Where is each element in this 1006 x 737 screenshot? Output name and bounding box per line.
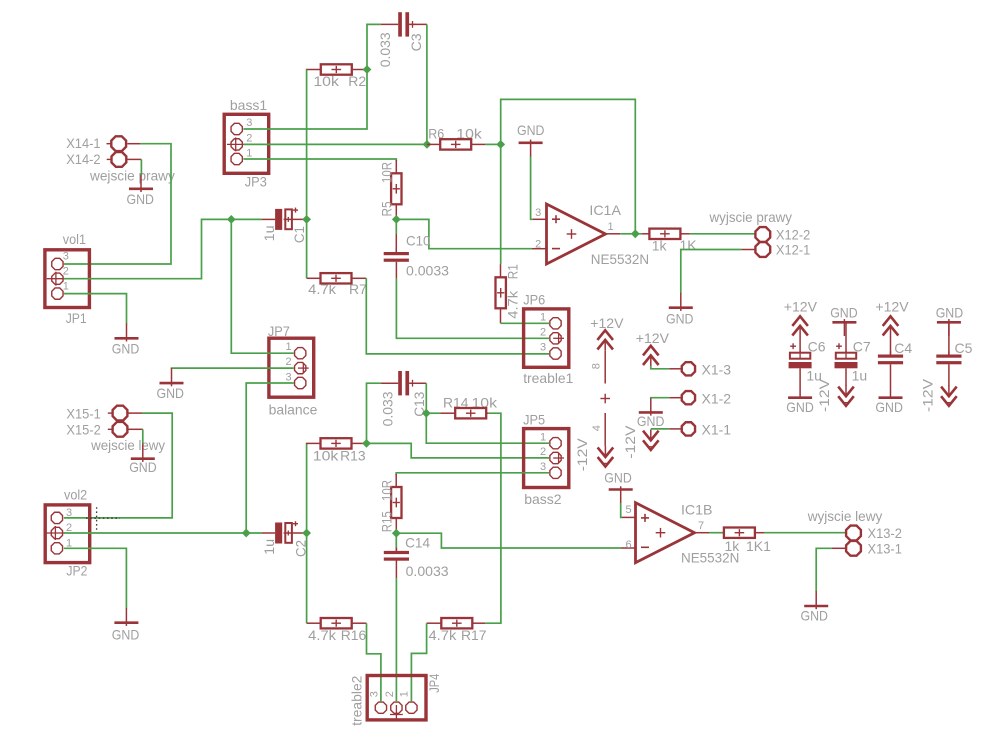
svg-text:bass2: bass2 [524, 491, 562, 507]
JP3 pin 3 circle [231, 123, 242, 134]
svg-text:2: 2 [63, 266, 69, 278]
ground GND (IC1A pin3) [519, 140, 543, 158]
svg-text:X13-1: X13-1 [868, 540, 903, 556]
junction R15/C14/opamp node [392, 529, 401, 538]
resistor R15 [391, 487, 401, 518]
wire R17 left to JP4 pin 1 [411, 623, 426, 701]
C2 left pin [262, 532, 275, 534]
R5 top pin [395, 160, 397, 173]
connector JP4 box [367, 676, 426, 720]
wire node to IC1A pin 2 [396, 219, 532, 248]
JP4 pin 2 origin cross [395, 705, 397, 722]
JP1 pin 2 circle [47, 272, 65, 286]
svg-text:1k: 1k [725, 538, 741, 554]
C4 bottom pin [890, 364, 892, 397]
svg-text:JP5: JP5 [523, 411, 545, 427]
svg-text:2: 2 [286, 356, 292, 368]
wire +12V to X1-3 [651, 366, 669, 369]
wire node down to C14 [395, 533, 397, 548]
svg-text:1u: 1u [261, 225, 277, 241]
-12V supply arrow (IC1P pin 4) [598, 446, 614, 466]
JP5 pin 1 circle [550, 438, 561, 449]
connector pad X15-1 [108, 406, 128, 421]
pin stub X15-2 [128, 428, 143, 430]
svg-text:IC1A: IC1A [589, 202, 621, 218]
R16 right pin [352, 622, 366, 624]
wire C2 node down to R16 [306, 533, 308, 623]
svg-text:1u: 1u [852, 367, 868, 383]
svg-text:8: 8 [591, 363, 603, 369]
capacitor C10 [384, 249, 409, 262]
wire X12-1 to GND [681, 250, 741, 294]
C5 bottom pin [948, 364, 950, 386]
wire GND to IC1B pin 5 [621, 503, 622, 517]
svg-text:R16: R16 [341, 627, 367, 643]
+12V supply arrow (IC1P pin 8) [597, 330, 613, 351]
connector pad X13-1 [846, 541, 861, 556]
svg-text:+12V: +12V [636, 330, 670, 346]
C5 top pin [948, 323, 950, 354]
wire node down to C10 [395, 219, 397, 234]
svg-text:R5: R5 [378, 201, 394, 216]
svg-text:1: 1 [540, 311, 546, 323]
ground GND (JP1) [115, 323, 139, 341]
svg-text:R1: R1 [505, 264, 521, 279]
connector pad X1-3 [682, 362, 695, 375]
C3 left pin [381, 23, 399, 25]
wire node to IC1B pin 6 [396, 533, 621, 548]
+12V supply arrow (X1-3) [643, 346, 659, 367]
1K right pin [680, 233, 690, 235]
R1 bottom pin [500, 308, 502, 323]
origin crosshair marker (JP2) [86, 507, 120, 530]
svg-text:R15: R15 [378, 511, 394, 532]
svg-text:C7: C7 [853, 339, 871, 355]
R16 left pin [307, 622, 321, 624]
-12V supply arrow (C7) [838, 385, 854, 405]
wire node down to R1 [500, 144, 502, 264]
svg-text:X1-1: X1-1 [702, 421, 732, 437]
X1-3 pin stub [669, 368, 682, 370]
svg-text:GND: GND [786, 399, 814, 415]
svg-text:GND: GND [637, 413, 665, 429]
svg-text:3: 3 [246, 117, 252, 129]
svg-text:+12V: +12V [784, 298, 818, 314]
ground GND (JP2) [114, 608, 138, 626]
svg-text:GND: GND [666, 311, 694, 327]
junction C2 plus node [302, 529, 311, 538]
wire X13-1 to GND [816, 548, 832, 591]
junction R5/C10/opamp node [392, 215, 401, 224]
svg-text:X13-2: X13-2 [868, 525, 903, 541]
wire C13 right down [425, 383, 427, 413]
C13 left pin [381, 382, 398, 384]
svg-text:4.7k: 4.7k [308, 627, 337, 643]
R2 right pin [352, 69, 364, 71]
R1 top pin [500, 264, 502, 277]
svg-text:X1-3: X1-3 [702, 362, 732, 378]
svg-text:2: 2 [540, 446, 546, 458]
C6 bottom pin [799, 368, 801, 397]
svg-text:+12V: +12V [875, 298, 909, 314]
wire JP2 pin 1 to GND [64, 548, 127, 608]
wire JP1 pin 1 to GND [64, 294, 127, 324]
svg-text:JP4: JP4 [426, 674, 442, 693]
X12-1 pin stub [741, 249, 755, 251]
svg-text:1: 1 [399, 691, 411, 697]
svg-text:GND: GND [801, 608, 829, 624]
wire 1K to X12-2 [690, 233, 755, 235]
svg-text:-12V: -12V [919, 378, 935, 412]
op-amp IC1A [547, 204, 606, 264]
resistor R6 [440, 139, 471, 149]
capacitor C13 [398, 371, 409, 395]
IC1P pin 8 line [604, 351, 606, 384]
svg-text:3: 3 [286, 371, 292, 383]
svg-text:vol1: vol1 [63, 231, 86, 247]
wire R7 to JP6 pin 3 [366, 278, 549, 354]
connector pad X14-1 [107, 136, 127, 151]
ground GND (C5) [937, 319, 961, 336]
junction R6 right / feedback node [496, 140, 505, 149]
svg-text:GND: GND [112, 626, 140, 642]
JP3 pin 1 circle [231, 153, 242, 164]
capacitor C5 [936, 351, 961, 364]
R17 left pin [427, 622, 442, 624]
wire R13 node to JP5 pin 2 [367, 443, 550, 458]
svg-text:GND: GND [129, 459, 157, 475]
wire JP7 pin 2 to GND [172, 367, 294, 370]
svg-text:3: 3 [535, 207, 541, 219]
1K1 right pin [755, 532, 764, 534]
1K left pin [642, 233, 650, 235]
IC1A pin 2 stub [532, 248, 547, 250]
pin stub X14-2 [127, 158, 141, 160]
svg-text:wyjscie lewy: wyjscie lewy [807, 508, 883, 524]
svg-text:R17: R17 [461, 627, 487, 643]
C13 right pin [409, 382, 426, 384]
svg-text:X12-2: X12-2 [776, 227, 811, 243]
resistor R7 [321, 273, 352, 283]
R6 left pin [427, 143, 440, 145]
C7 bottom pin [845, 368, 847, 386]
X13-1 pin stub [832, 547, 846, 549]
pin stub X14-1 [127, 143, 140, 145]
capacitor C7 (polarized) [835, 343, 858, 368]
svg-text:vol2: vol2 [64, 486, 87, 502]
X1-1 pin stub [669, 428, 682, 430]
svg-text:3: 3 [66, 507, 72, 519]
resistor 1K (right channel) [649, 229, 680, 239]
X1-2 pin stub [669, 397, 682, 399]
svg-text:GND: GND [936, 305, 964, 321]
C10 bottom pin [395, 262, 397, 279]
svg-text:1: 1 [540, 431, 546, 443]
wire X15-2 to GND [142, 429, 144, 444]
IC1A pin 3 stub [533, 218, 547, 220]
wire X15-1 to JP2 pin 3 [64, 413, 172, 518]
JP2 pin 2 circle [46, 526, 64, 540]
JP5 pin 3 circle [550, 467, 561, 478]
IC1B pin 5 stub [622, 516, 636, 518]
R2 left pin [306, 69, 321, 71]
svg-text:R7: R7 [349, 281, 367, 297]
connector JP1 box [45, 250, 90, 308]
connector JP7 box [269, 338, 314, 397]
C10 top pin [395, 234, 397, 252]
IC1P origin cross [600, 398, 610, 400]
svg-text:4.7k: 4.7k [308, 281, 337, 297]
junction C1 plus node [302, 215, 311, 224]
C3 right pin [409, 23, 427, 25]
wire 1K1 to X13-2 [764, 532, 846, 534]
wire feedback IC1A [501, 99, 636, 233]
IC1P pin 4 line [604, 413, 606, 446]
svg-text:R13: R13 [340, 448, 366, 464]
C7 top pin [845, 323, 847, 353]
R13 right pin [352, 442, 363, 444]
capacitor C3 [398, 12, 409, 36]
capacitor C4 [878, 351, 903, 364]
svg-text:X14-1: X14-1 [66, 135, 101, 151]
svg-text:3: 3 [368, 691, 380, 697]
connector pad X1-1 [682, 422, 695, 435]
svg-text:X1-2: X1-2 [702, 391, 732, 407]
svg-text:1K1: 1K1 [746, 538, 771, 554]
wire JP1 pin 2 to C1 [64, 219, 262, 278]
junction C1 line / JP7 pin1 [227, 215, 236, 224]
IC1A output pin [606, 233, 621, 235]
+12V supply arrow (C4) [883, 316, 899, 337]
R14 left pin [440, 412, 455, 414]
svg-text:GND: GND [875, 399, 903, 415]
svg-text:C5: C5 [955, 340, 973, 356]
C14 top pin [395, 548, 397, 551]
svg-text:0.033: 0.033 [377, 32, 393, 67]
JP3 pin 2 circle [227, 137, 244, 151]
wire R16 to JP4 pin 3 [367, 623, 381, 701]
wire X1-2 to GND [651, 398, 669, 399]
capacitor C6 (polarized) [789, 343, 812, 368]
wire X1-1 to -12V [651, 428, 669, 430]
ground GND (X13-1) [804, 591, 828, 609]
R13 left pin [306, 442, 321, 444]
svg-text:C6: C6 [808, 339, 826, 355]
ground GND (wejscie prawy) [129, 175, 153, 192]
R7 right pin [352, 277, 367, 279]
svg-text:10k: 10k [313, 448, 340, 464]
wire JP5 pin 3 to R15 [396, 473, 549, 475]
resistor R13 [321, 438, 352, 448]
ground GND (X12-1) [669, 293, 693, 311]
ground GND (C6) [788, 396, 812, 399]
svg-text:GND: GND [127, 191, 155, 207]
junction R6 left node [423, 140, 432, 149]
svg-text:X15-2: X15-2 [66, 422, 101, 438]
connector pad X12-2 [755, 227, 770, 242]
R15 top pin [395, 474, 397, 487]
JP4 pin 3 circle [375, 702, 386, 713]
svg-text:wyjscie prawy: wyjscie prawy [709, 209, 792, 225]
wire JP7 pin 3 [246, 383, 294, 533]
svg-text:+12V: +12V [590, 315, 624, 331]
wire node up to C13 [367, 383, 382, 443]
R15 bottom pin [395, 518, 397, 533]
JP1 pin 1 circle [52, 288, 63, 299]
R6 right pin [471, 143, 485, 145]
JP2 pin 3 circle [51, 512, 62, 523]
svg-text:R2: R2 [348, 73, 366, 89]
svg-text:4.7k: 4.7k [505, 290, 521, 319]
C1 left pin [262, 218, 275, 220]
svg-text:3: 3 [540, 461, 546, 473]
svg-text:wejscie prawy: wejscie prawy [89, 168, 175, 184]
JP1 pin 3 circle [52, 258, 63, 269]
wire JP2 pin 2 to C2 [64, 532, 262, 534]
wire C1 node down to R7 [306, 219, 308, 278]
wire JP7 pin 1 [231, 219, 293, 353]
ground GND (C7) [832, 319, 856, 336]
connector pad X1-2 [682, 391, 695, 404]
wire node to JP5 pin 1 [426, 413, 549, 443]
svg-text:bass1: bass1 [230, 97, 268, 113]
svg-text:C4: C4 [894, 340, 912, 356]
svg-text:1: 1 [246, 147, 252, 159]
JP6 pin 3 circle [550, 348, 561, 359]
junction JP7 pin3 / C2 line [242, 529, 251, 538]
wire JP3 pin 2 to R6 [243, 143, 427, 145]
JP4 pin 2 circle [391, 702, 402, 713]
C6 top pin [799, 337, 801, 353]
svg-text:10R: 10R [378, 162, 394, 183]
wire node to R14 [426, 412, 440, 414]
svg-text:0.0033: 0.0033 [406, 263, 449, 279]
svg-text:C1: C1 [291, 226, 307, 243]
connector pad X13-2 [846, 526, 861, 541]
svg-text:treable2: treable2 [349, 675, 365, 725]
connector pad X14-2 [107, 152, 127, 167]
-12V supply arrow (C5) [941, 385, 957, 405]
svg-text:1: 1 [63, 281, 69, 293]
svg-text:JP1: JP1 [66, 310, 87, 326]
svg-text:X12-1: X12-1 [776, 242, 811, 258]
svg-text:JP7: JP7 [268, 323, 290, 339]
resistor R2 [321, 64, 352, 74]
wire R13 right to node [363, 442, 367, 444]
svg-text:1K: 1K [680, 237, 698, 253]
svg-text:NE5532N: NE5532N [591, 251, 649, 267]
svg-text:-12V: -12V [574, 438, 590, 472]
junction IC1A output node [631, 229, 640, 238]
ground GND (JP7 pin2) [160, 368, 184, 386]
R5 bottom pin [395, 204, 397, 219]
svg-text:C14: C14 [405, 535, 430, 551]
wire IC1B output [709, 532, 724, 534]
wire C3 right down to R6 node [426, 24, 428, 144]
connector pad X15-2 [108, 422, 128, 437]
C4 top pin [890, 337, 892, 355]
ground GND (wejscie lewy) [131, 444, 155, 462]
capacitor C14 [384, 548, 409, 561]
wire X14-2 to GND [140, 159, 142, 175]
resistor R17 [441, 618, 472, 628]
wire R14 right down to R17 [485, 413, 501, 623]
capacitor C1 (polarized) [275, 208, 303, 230]
resistor 1K1 (left channel) [724, 528, 755, 538]
resistor R14 [455, 408, 486, 418]
svg-text:1: 1 [608, 221, 614, 233]
JP7 pin 1 circle [295, 348, 306, 359]
svg-text:X14-2: X14-2 [66, 151, 101, 167]
R7 left pin [307, 277, 321, 279]
JP7 pin 3 circle [295, 377, 306, 388]
svg-text:C10: C10 [406, 233, 431, 249]
svg-text:2: 2 [540, 327, 546, 339]
connector JP3 box [224, 114, 269, 173]
pin stub X15-1 [128, 412, 142, 414]
JP4 pin 1 circle [406, 702, 417, 713]
-12V supply arrow (X1-1) [643, 430, 659, 450]
JP6 pin 1 circle [550, 318, 561, 329]
junction R2/C3/JP3 node [363, 65, 372, 74]
svg-text:GND: GND [112, 341, 140, 357]
svg-text:wejscie lewy: wejscie lewy [90, 437, 165, 453]
svg-text:-12V: -12V [816, 378, 832, 412]
svg-text:IC1B: IC1B [681, 501, 713, 517]
wire IC1A output [620, 233, 635, 235]
svg-text:GND: GND [604, 470, 632, 486]
svg-text:3: 3 [63, 250, 69, 262]
svg-text:-12V: -12V [622, 425, 638, 459]
connector JP6 box [524, 309, 569, 367]
svg-text:JP2: JP2 [66, 563, 87, 579]
resistor R16 [321, 618, 352, 628]
svg-text:3: 3 [540, 342, 546, 354]
svg-text:1: 1 [286, 341, 292, 353]
svg-text:4: 4 [591, 425, 603, 431]
capacitor C2 (polarized) [275, 521, 303, 543]
wire output node to 1K [635, 233, 641, 235]
junction C13/R14 node [422, 409, 431, 418]
svg-text:2: 2 [246, 133, 252, 145]
wire GND to IC1A pin 3 [531, 157, 533, 220]
resistor R5 [391, 173, 401, 204]
wire R6 right to node [485, 143, 501, 145]
JP6 pin 2 circle [550, 333, 564, 344]
svg-text:6: 6 [626, 539, 632, 551]
svg-text:5: 5 [626, 504, 632, 516]
junction R13/C13 node [362, 439, 371, 448]
wire X14-1 to JP1 pin 3 [64, 144, 171, 264]
resistor R1 [496, 277, 506, 308]
ground GND (C4) [879, 396, 903, 399]
connector JP2 box [45, 505, 89, 563]
svg-text:1u: 1u [261, 539, 277, 555]
wire C14 to JP4 pin 2 [395, 578, 397, 701]
+12V supply arrow (C6) [792, 316, 808, 337]
svg-text:10k: 10k [313, 73, 340, 89]
R14 right pin [486, 412, 488, 414]
svg-text:X15-1: X15-1 [66, 405, 101, 421]
R17 right pin [472, 622, 485, 624]
op-amp IC1B [636, 503, 695, 563]
svg-text:4.7k: 4.7k [429, 627, 458, 643]
svg-text:7: 7 [698, 520, 704, 532]
JP5 pin 2 circle [550, 452, 564, 463]
svg-text:0.033: 0.033 [380, 391, 396, 426]
svg-text:2: 2 [384, 691, 396, 697]
svg-text:10R: 10R [378, 480, 394, 501]
